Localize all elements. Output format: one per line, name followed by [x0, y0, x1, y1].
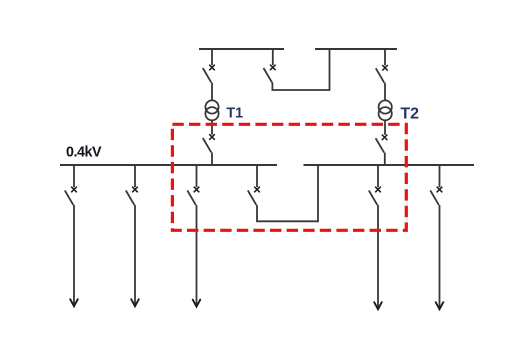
- svg-text:0.4kV: 0.4kV: [66, 145, 102, 161]
- svg-text:T2: T2: [400, 106, 419, 123]
- svg-text:T1: T1: [226, 105, 243, 121]
